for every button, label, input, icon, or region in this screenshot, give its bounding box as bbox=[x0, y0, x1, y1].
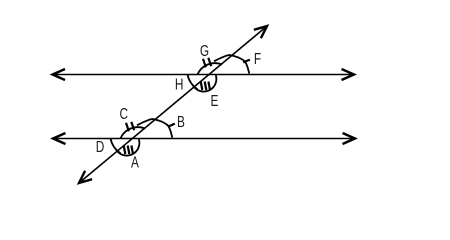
angle arc G bbox=[198, 63, 223, 74]
angle G tick 2 bbox=[208, 58, 211, 66]
angle E tick 1 bbox=[201, 82, 203, 91]
svg-text:G: G bbox=[200, 41, 209, 59]
lower line left arrowhead bbox=[53, 133, 66, 144]
angle E tick 2 bbox=[205, 82, 207, 91]
angle B tick bbox=[168, 124, 175, 127]
transversal bottom arrowhead bbox=[79, 171, 92, 183]
angle C tick 2 bbox=[131, 122, 134, 130]
transversal line bbox=[81, 27, 266, 182]
svg-text:D: D bbox=[96, 137, 105, 155]
angle C tick 1 bbox=[126, 123, 129, 132]
angle A tick 3 bbox=[131, 146, 133, 155]
svg-text:H: H bbox=[175, 75, 184, 93]
svg-text:B: B bbox=[177, 112, 185, 130]
angle A tick 1 bbox=[124, 146, 126, 155]
angle arc D bbox=[111, 139, 121, 154]
angle arc C bbox=[121, 127, 146, 138]
svg-text:E: E bbox=[211, 91, 219, 109]
angle arc E bbox=[193, 75, 216, 91]
angle E tick 3 bbox=[208, 82, 210, 91]
upper line right arrowhead bbox=[342, 69, 355, 80]
angle arc A bbox=[116, 139, 139, 155]
angle F tick bbox=[243, 60, 250, 63]
svg-text:F: F bbox=[254, 49, 261, 67]
svg-text:A: A bbox=[131, 153, 139, 171]
svg-text:C: C bbox=[120, 104, 129, 122]
angle G tick 1 bbox=[203, 59, 206, 68]
upper line left arrowhead bbox=[53, 69, 66, 80]
lower parallel line bbox=[55, 138, 355, 140]
angle arc F bbox=[214, 55, 249, 73]
angle arc H bbox=[188, 75, 198, 90]
upper parallel line bbox=[54, 74, 353, 76]
angle arc B bbox=[137, 119, 172, 137]
lower line right arrowhead bbox=[343, 133, 356, 144]
angle A tick 2 bbox=[128, 146, 130, 155]
transversal top arrowhead bbox=[254, 26, 267, 38]
